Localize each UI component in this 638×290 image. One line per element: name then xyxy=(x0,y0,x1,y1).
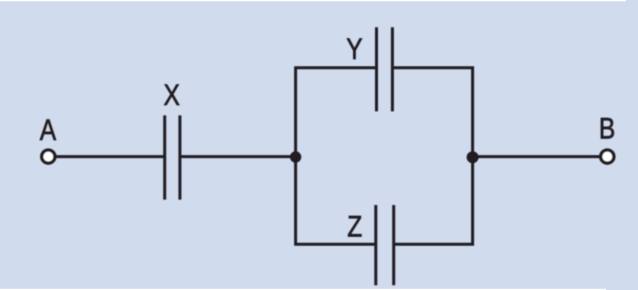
wire A to capacitor X xyxy=(56,155,165,158)
svg-text:X: X xyxy=(163,77,179,111)
wire capacitor Y to right corner down to node N2 xyxy=(392,68,472,158)
capacitor Z plates xyxy=(374,205,377,285)
capacitor Y plates xyxy=(375,27,378,111)
capacitor X plates xyxy=(163,115,166,199)
wire node N1 up and top branch to capacitor Y xyxy=(296,68,377,158)
svg-text:Y: Y xyxy=(346,31,362,65)
terminal B open circle xyxy=(601,150,614,163)
wire node N2 to terminal B xyxy=(473,155,600,158)
wire capacitor Z to right corner up to node N2 xyxy=(394,156,473,244)
svg-text:Z: Z xyxy=(347,209,362,243)
svg-text:B: B xyxy=(599,111,615,145)
node N1 junction dot xyxy=(290,151,301,162)
wire node N1 down and bottom branch to capacitor Z xyxy=(296,156,376,244)
terminal A open circle xyxy=(42,150,55,163)
node N2 junction dot xyxy=(467,151,479,163)
svg-text:A: A xyxy=(40,112,57,146)
wire capacitor X to node N1 xyxy=(180,155,296,158)
